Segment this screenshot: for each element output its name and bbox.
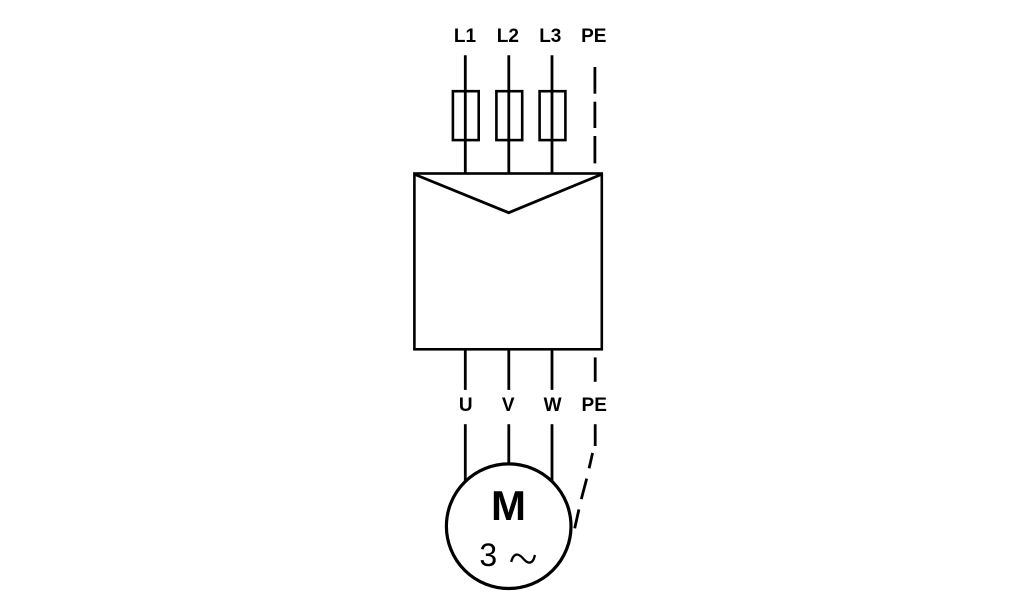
wire PE top dashed (594, 67, 597, 163)
svg-text:L1: L1 (454, 26, 477, 47)
motor M1 body (446, 464, 571, 589)
wire W to motor (551, 424, 554, 481)
svg-text:V: V (502, 395, 515, 416)
svg-text:PE: PE (581, 26, 606, 47)
wire V from control box (507, 349, 510, 390)
control box U1 (414, 174, 601, 350)
wire U from control box (464, 349, 467, 390)
svg-text:M: M (491, 482, 526, 529)
wire V to motor (507, 424, 510, 464)
svg-text:L2: L2 (497, 26, 519, 47)
fuse F2 on L2 (496, 91, 522, 140)
svg-text:L3: L3 (539, 26, 561, 47)
wire L2 to control box (507, 55, 510, 173)
fuse F1 on L1 (453, 91, 479, 140)
svg-text:W: W (544, 395, 562, 416)
svg-text:3: 3 (479, 537, 497, 573)
control box envelope flap (415, 175, 601, 213)
wire U to motor (464, 424, 467, 481)
motor M1 AC tilde symbol (511, 555, 535, 563)
wire PE from control box dashed (594, 357, 597, 381)
wire W from control box (551, 349, 554, 390)
wire PE to motor dashed (575, 424, 596, 528)
fuse F3 on L3 (540, 91, 566, 140)
svg-text:PE: PE (582, 395, 607, 416)
wire L3 to control box (551, 55, 554, 173)
wire L1 to control box (464, 55, 467, 173)
svg-text:U: U (459, 395, 473, 416)
